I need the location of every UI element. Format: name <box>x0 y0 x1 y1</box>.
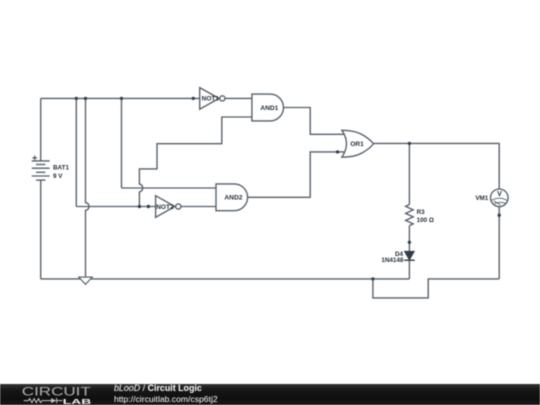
not gate NOT1 <box>200 88 225 110</box>
footer logo resistor diode glyph <box>24 398 63 403</box>
junction node at OR1 lower input pin <box>336 150 339 153</box>
or gate OR1 <box>342 130 374 157</box>
wire R3 bottom to D4 <box>408 226 410 252</box>
wire OR1 output rail to VM1 <box>374 143 500 189</box>
wire AND1 output to OR1 top input <box>284 108 345 135</box>
footer bar background <box>0 384 540 405</box>
wire vertical B to ground with hop <box>86 98 90 277</box>
svg-text:AND1: AND1 <box>260 105 278 112</box>
wire ground rail <box>41 278 373 280</box>
wire NOT2 output to AND2 <box>181 206 217 208</box>
wire bottom detour to VM1 <box>373 279 499 298</box>
svg-text:9 V: 9 V <box>53 173 63 180</box>
svg-text:R3: R3 <box>417 209 426 216</box>
ground symbol <box>79 277 92 284</box>
not gate NOT2 <box>156 196 181 218</box>
svg-text:BAT1: BAT1 <box>53 165 69 172</box>
junction node at NOT1 input pin <box>192 97 195 100</box>
svg-text:LAB: LAB <box>63 397 91 405</box>
svg-text:AND2: AND2 <box>224 195 242 202</box>
svg-text:bLooD / Circuit Logic: bLooD / Circuit Logic <box>114 383 202 393</box>
wire VM1 bottom lead <box>498 207 500 279</box>
resistor R3 zigzag <box>406 205 414 226</box>
wire D4 bottom lead <box>408 260 410 279</box>
wire AND1 lower input staircase with hop <box>139 117 252 207</box>
wire vertical C <box>121 98 123 188</box>
svg-text:V: V <box>497 189 502 198</box>
junction node at NOT2 input pin <box>147 205 150 208</box>
junction node A2 on top rail <box>84 97 87 100</box>
and gate AND2 <box>216 184 248 211</box>
wire OR1 junction down to R3 <box>408 143 410 204</box>
junction node at OR1 output net <box>408 142 411 145</box>
battery BAT1 plates <box>32 161 50 180</box>
footer logo diode triangle <box>51 398 56 403</box>
wire battery top lead <box>40 98 42 160</box>
svg-text:100 Ω: 100 Ω <box>417 217 434 224</box>
battery plus sign <box>32 156 37 161</box>
junction node at D4 anode pin <box>408 241 411 244</box>
wire top rail to NOT1 <box>41 97 201 99</box>
junction node at NOT2 input net <box>138 205 141 208</box>
diode D4 <box>404 251 415 260</box>
wire ground dot to diode stub <box>373 278 410 280</box>
wire AND2 output to OR1 bottom input <box>248 152 344 197</box>
svg-text:NOT2: NOT2 <box>156 204 174 211</box>
svg-text:http://circuitlab.com/csp6tj2: http://circuitlab.com/csp6tj2 <box>114 394 218 404</box>
wire battery bottom lead <box>40 180 42 279</box>
wire AND2 top input horizontal <box>122 187 218 189</box>
svg-text:OR1: OR1 <box>350 141 364 148</box>
wire NOT1 output to AND1 <box>225 97 253 99</box>
junction node on ground rail <box>371 277 374 280</box>
junction node at VM1 bottom pin <box>498 214 501 217</box>
svg-text:NOT1: NOT1 <box>202 96 220 103</box>
wire NOT2 input horizontal <box>76 206 157 208</box>
svg-text:VM1: VM1 <box>475 195 488 202</box>
and gate AND1 <box>252 94 284 121</box>
wire vertical A to NOT2 input <box>75 98 77 206</box>
junction node A3 on top rail <box>120 97 123 100</box>
voltmeter VM1 <box>491 189 509 207</box>
junction node A1 on top rail <box>75 97 78 100</box>
svg-text:1N4148: 1N4148 <box>381 257 404 264</box>
